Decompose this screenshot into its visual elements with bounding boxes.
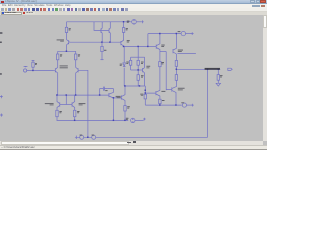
wire out to R15 bbox=[217, 69, 219, 74]
label R10 bbox=[141, 61, 144, 64]
wire Q6 emitter resistor column bbox=[101, 42, 103, 46]
net flag right of I1 bbox=[191, 32, 194, 35]
label Q10 bbox=[161, 44, 164, 47]
wire tail bar bbox=[58, 50, 76, 52]
node dot y33.6 b bbox=[176, 33, 177, 34]
label R1 bbox=[69, 27, 71, 30]
left edge directive 1 bbox=[0, 32, 2, 34]
wire mirror base link bbox=[60, 104, 72, 106]
app icon bbox=[1, 1, 4, 4]
label I1 bbox=[178, 30, 181, 33]
wire Q5 emitter to tail node bbox=[66, 45, 68, 51]
transistor Q12 output NPN bbox=[166, 87, 176, 105]
wire mid horizontal y42 bbox=[70, 41, 121, 43]
wire below vbe base bbox=[137, 70, 139, 75]
label Q3 bbox=[45, 102, 54, 105]
net flag left edge 2 bbox=[0, 114, 3, 117]
label Q12 bbox=[178, 87, 185, 90]
toolbar bbox=[0, 8, 267, 12]
node dot v- rail a bbox=[74, 120, 75, 121]
wire bottom rail bbox=[76, 136, 207, 138]
net flag in bbox=[24, 65, 28, 68]
wire y46.5 horizontal bbox=[124, 46, 148, 48]
label Q4 bbox=[79, 102, 86, 105]
wire compensation bridge bbox=[100, 89, 114, 96]
net flag V- bbox=[143, 118, 146, 121]
transistor Q7 bbox=[109, 22, 110, 42]
node dot y33.6 a bbox=[159, 33, 160, 34]
resistor R11 bbox=[137, 75, 139, 81]
wire y33.6 rail bbox=[148, 33, 181, 35]
tab 1 bbox=[1, 12, 22, 15]
wire R8 to Q8 bbox=[123, 32, 125, 40]
node dot y86 b bbox=[139, 85, 140, 86]
status bar bbox=[0, 145, 267, 150]
transistor Q6 bbox=[101, 22, 102, 42]
label R8 bbox=[126, 27, 128, 30]
wire vbe top bar bbox=[131, 56, 145, 58]
resistor R13 bbox=[175, 61, 177, 67]
label D1 bbox=[120, 63, 123, 66]
wire vbe mid branch bbox=[137, 57, 139, 70]
wire corner x148 bbox=[147, 34, 149, 47]
label Q5 bbox=[57, 39, 64, 42]
node dot y42 b bbox=[109, 41, 110, 42]
net flag V+ bbox=[141, 20, 144, 23]
net flag above R3 bbox=[32, 60, 35, 62]
wire base rail second stage bbox=[56, 94, 109, 96]
wire out horizontal bbox=[176, 68, 220, 70]
resistor R8 bbox=[122, 28, 124, 33]
label V4 bbox=[80, 134, 83, 137]
wire rail to R8 bbox=[123, 22, 125, 28]
wire top rail right segment bbox=[137, 21, 141, 23]
resistor R17 bbox=[159, 99, 161, 103]
resistor R5 bbox=[56, 110, 58, 116]
node dot v- rail b bbox=[113, 120, 114, 121]
wire feedback column bbox=[80, 70, 88, 137]
source/meter circle on out rail bbox=[182, 103, 186, 107]
capacitor C1 comp bbox=[103, 87, 107, 91]
node dot y95 rail b bbox=[75, 94, 76, 95]
label Q8 bbox=[127, 39, 130, 42]
menu bar bbox=[0, 4, 267, 8]
resistor R16 bbox=[144, 94, 146, 99]
voltage source V3 bbox=[131, 118, 135, 122]
resistor R3 bbox=[32, 62, 34, 67]
wire vbe jog down bbox=[137, 47, 139, 58]
node dot tail bbox=[66, 51, 67, 52]
transistor QA pre-driver bbox=[109, 89, 114, 121]
wire top rail V+ bbox=[67, 21, 132, 23]
node dot qb base bbox=[113, 97, 114, 98]
child window buttons bbox=[252, 5, 256, 7]
node dot out rail q13 bbox=[159, 104, 160, 105]
node dot y46.5 vbe bbox=[137, 46, 138, 47]
voltage source V5 bbox=[92, 135, 96, 139]
resistor R1 bbox=[65, 27, 67, 32]
wire stub end T bbox=[100, 59, 103, 61]
label R17 bbox=[162, 99, 165, 102]
transistor Q8 bbox=[121, 40, 124, 47]
ground symbol bbox=[216, 83, 220, 86]
wire col 166.2 down bbox=[165, 52, 167, 91]
resistor R2 bbox=[57, 54, 59, 60]
wire tail corner right bbox=[75, 51, 77, 54]
transistor Q5 bbox=[67, 39, 71, 45]
wire R11 to y86 bbox=[137, 80, 139, 86]
label R9 bbox=[126, 61, 129, 64]
wire R4 to Q2 bbox=[75, 60, 77, 67]
wire vbe base bar bbox=[131, 69, 143, 71]
node dot out mid bbox=[207, 69, 208, 70]
label R4 bbox=[78, 53, 80, 56]
label R15 bbox=[220, 74, 223, 77]
wire col 159.9 down bbox=[159, 52, 161, 91]
ground flag left end bbox=[75, 136, 76, 139]
transistor Q4 bbox=[72, 95, 75, 110]
resistor R12 bbox=[159, 62, 161, 67]
label R18 bbox=[127, 105, 130, 108]
node dot y95 rail c bbox=[66, 94, 67, 95]
node dot q8 emitter bbox=[123, 46, 124, 47]
wire QB base stub bbox=[114, 97, 122, 99]
title bar bbox=[0, 0, 267, 4]
node dot y42 a bbox=[101, 41, 102, 42]
net flag left edge 1 bbox=[0, 95, 3, 98]
wire R13 to out node bbox=[175, 66, 177, 74]
wire R16 to rail bbox=[144, 99, 146, 105]
wire input bbox=[27, 70, 54, 72]
label Q13 bbox=[161, 90, 165, 93]
horizontal scrollbar bbox=[0, 141, 263, 145]
label output text bbox=[205, 68, 220, 70]
node dot out rail q12 bbox=[175, 104, 176, 105]
resistor R6 bbox=[74, 110, 76, 116]
label R2 bbox=[60, 53, 62, 56]
transistor Q10 bbox=[156, 34, 160, 52]
label V3 bbox=[126, 117, 129, 120]
node dot y95 rail a bbox=[56, 94, 57, 95]
label R6 bbox=[77, 110, 79, 113]
transistor Q11 bbox=[173, 34, 177, 61]
node dot vbe base bbox=[137, 69, 138, 70]
net flag right of out rail bbox=[191, 104, 194, 107]
label Q1 Q2 bbox=[60, 65, 68, 68]
wire after source bbox=[186, 33, 192, 35]
transistor Q9 vbe multiplier bbox=[143, 57, 145, 86]
transistor Q2 bbox=[76, 67, 80, 73]
wire driver column from Q9 emitter bbox=[144, 86, 147, 94]
node dot comp tap bbox=[99, 94, 100, 95]
port flag out bbox=[228, 68, 232, 70]
wire vbe left branch bbox=[130, 57, 132, 70]
label V5 bbox=[92, 134, 95, 137]
resistor R4 bbox=[75, 54, 77, 60]
wire R17 to rail bbox=[159, 104, 161, 106]
wire R6 to V- rail bbox=[74, 117, 76, 121]
wire out vertical right bbox=[207, 69, 209, 137]
node dot input bbox=[32, 70, 33, 71]
node dot driver col a bbox=[145, 90, 146, 91]
wire out rail y105 bbox=[145, 104, 182, 106]
left edge directive 3 bbox=[0, 73, 2, 75]
schematic canvas bbox=[0, 15, 263, 142]
wire out rail right bbox=[187, 104, 192, 106]
voltage source V1 bbox=[132, 20, 137, 25]
resistor R9 bbox=[129, 60, 131, 65]
wire V- rail bbox=[57, 119, 129, 121]
schematic SVG bbox=[0, 0, 267, 150]
label R3 bbox=[35, 62, 37, 65]
wire y86 node bbox=[124, 85, 144, 87]
wire Q2 collector drop bbox=[75, 73, 77, 95]
window buttons bbox=[250, 0, 255, 3]
wire R7 down bbox=[101, 52, 103, 60]
resistor R15 load bbox=[217, 75, 219, 81]
node dot out R15 bbox=[218, 69, 219, 70]
resistor R14 bbox=[175, 75, 177, 81]
transistor Q3 bbox=[57, 95, 60, 110]
wire Q8 emitter node bbox=[123, 45, 125, 48]
wire left drop from rail bbox=[66, 22, 68, 28]
node dot driver col b bbox=[145, 92, 146, 93]
wire VAS column bbox=[123, 47, 125, 87]
label QB bbox=[116, 95, 121, 98]
wire R5 to V- rail bbox=[56, 117, 58, 121]
node dot out left bbox=[176, 69, 177, 70]
window bottom edge bbox=[0, 148, 267, 151]
label QA bbox=[105, 89, 107, 92]
wire y51.5 stub bbox=[160, 51, 166, 53]
label R11 bbox=[141, 74, 144, 77]
wire R2 to Q1 bbox=[57, 60, 59, 67]
wire Q1 collector drop bbox=[57, 73, 59, 95]
wire QC base from y46.5 bbox=[148, 46, 156, 48]
wire tail corner left bbox=[57, 51, 59, 54]
resistor R10 bbox=[137, 60, 139, 65]
tab bar bbox=[0, 12, 267, 15]
resistor R18 bbox=[124, 106, 126, 111]
label I2 bbox=[181, 101, 184, 104]
vertical scrollbar bbox=[263, 15, 268, 142]
node dot v- rail c bbox=[124, 120, 125, 121]
label V1 bbox=[127, 21, 130, 22]
wire mirror center tap bbox=[65, 95, 67, 104]
wire R3 to input wire bbox=[32, 67, 34, 70]
label Q9 bbox=[146, 65, 150, 68]
label R5 bbox=[59, 110, 61, 113]
wire R14 to QE bbox=[175, 80, 177, 87]
transistor QB bbox=[121, 86, 125, 106]
left edge directive 2 bbox=[0, 42, 2, 44]
resistor R7 bbox=[101, 46, 103, 51]
node dot y86 a bbox=[124, 85, 125, 86]
transistor Q1 bbox=[54, 67, 58, 73]
node dot y46.5 right bbox=[147, 46, 148, 47]
label Q11 bbox=[178, 49, 183, 52]
label R12 bbox=[161, 61, 164, 64]
current mirror top: wire base jog bbox=[94, 22, 109, 31]
wire R15 to gnd bbox=[217, 80, 219, 83]
wire QA emitter to rail dot bbox=[113, 119, 115, 121]
diode D1 bbox=[123, 63, 126, 67]
wire R18 to V- rail bbox=[124, 111, 126, 120]
label R16 bbox=[140, 93, 143, 96]
node dot rail/R8 bbox=[123, 21, 124, 22]
node dot battery mid bbox=[87, 137, 88, 138]
voltage source V4 bbox=[80, 135, 84, 139]
labels (dark specks) bbox=[0, 21, 223, 136]
current source I1 bbox=[181, 31, 185, 35]
wire R1 to Q5 bbox=[66, 33, 68, 40]
voltage source Vin bbox=[24, 69, 27, 72]
wire V- rail right bbox=[135, 119, 144, 121]
transistor Q13 driver bbox=[145, 90, 160, 99]
label R7 bbox=[104, 49, 106, 52]
tab 2 bbox=[23, 12, 35, 15]
